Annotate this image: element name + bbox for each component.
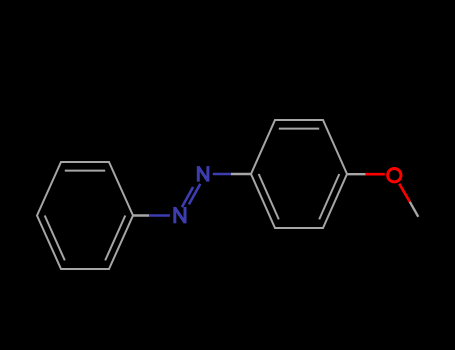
N letter (lower azo nitrogen) xyxy=(175,207,185,223)
right benzene ring outline xyxy=(251,120,347,228)
bond O to methyl, oxygen half (red) xyxy=(399,184,410,202)
N=N double bond line 2 (lower-left line) xyxy=(182,187,193,207)
right ring inner double bond (lower-left edge) xyxy=(259,174,279,219)
left benzene ring outline xyxy=(37,162,133,269)
right ring inner double bond (lower-right edge) xyxy=(319,174,339,219)
bond N to right ring, nitrogen half (blue) xyxy=(213,173,231,176)
left ring inner double bond (lower-right edge) xyxy=(105,216,125,261)
bond right ring to O, oxygen half (red) xyxy=(366,173,385,176)
left ring inner double bond (top edge) xyxy=(65,170,105,172)
bond N to right ring, carbon half (gray) xyxy=(231,173,251,175)
bond left ring to N, nitrogen half (blue) xyxy=(149,214,170,217)
N letter (upper azo nitrogen) xyxy=(198,166,208,182)
N=N double bond line 1 (upper-right line) xyxy=(189,184,200,205)
bond O to methyl, carbon half (gray) xyxy=(410,202,419,217)
right ring inner double bond (top edge) xyxy=(279,128,319,130)
bond right ring to O, carbon half (gray) xyxy=(347,173,366,175)
O letter (methoxy oxygen) xyxy=(388,169,401,182)
bond left ring to N, carbon half (gray) xyxy=(133,214,149,216)
left ring inner double bond (lower-left edge) xyxy=(45,216,65,261)
